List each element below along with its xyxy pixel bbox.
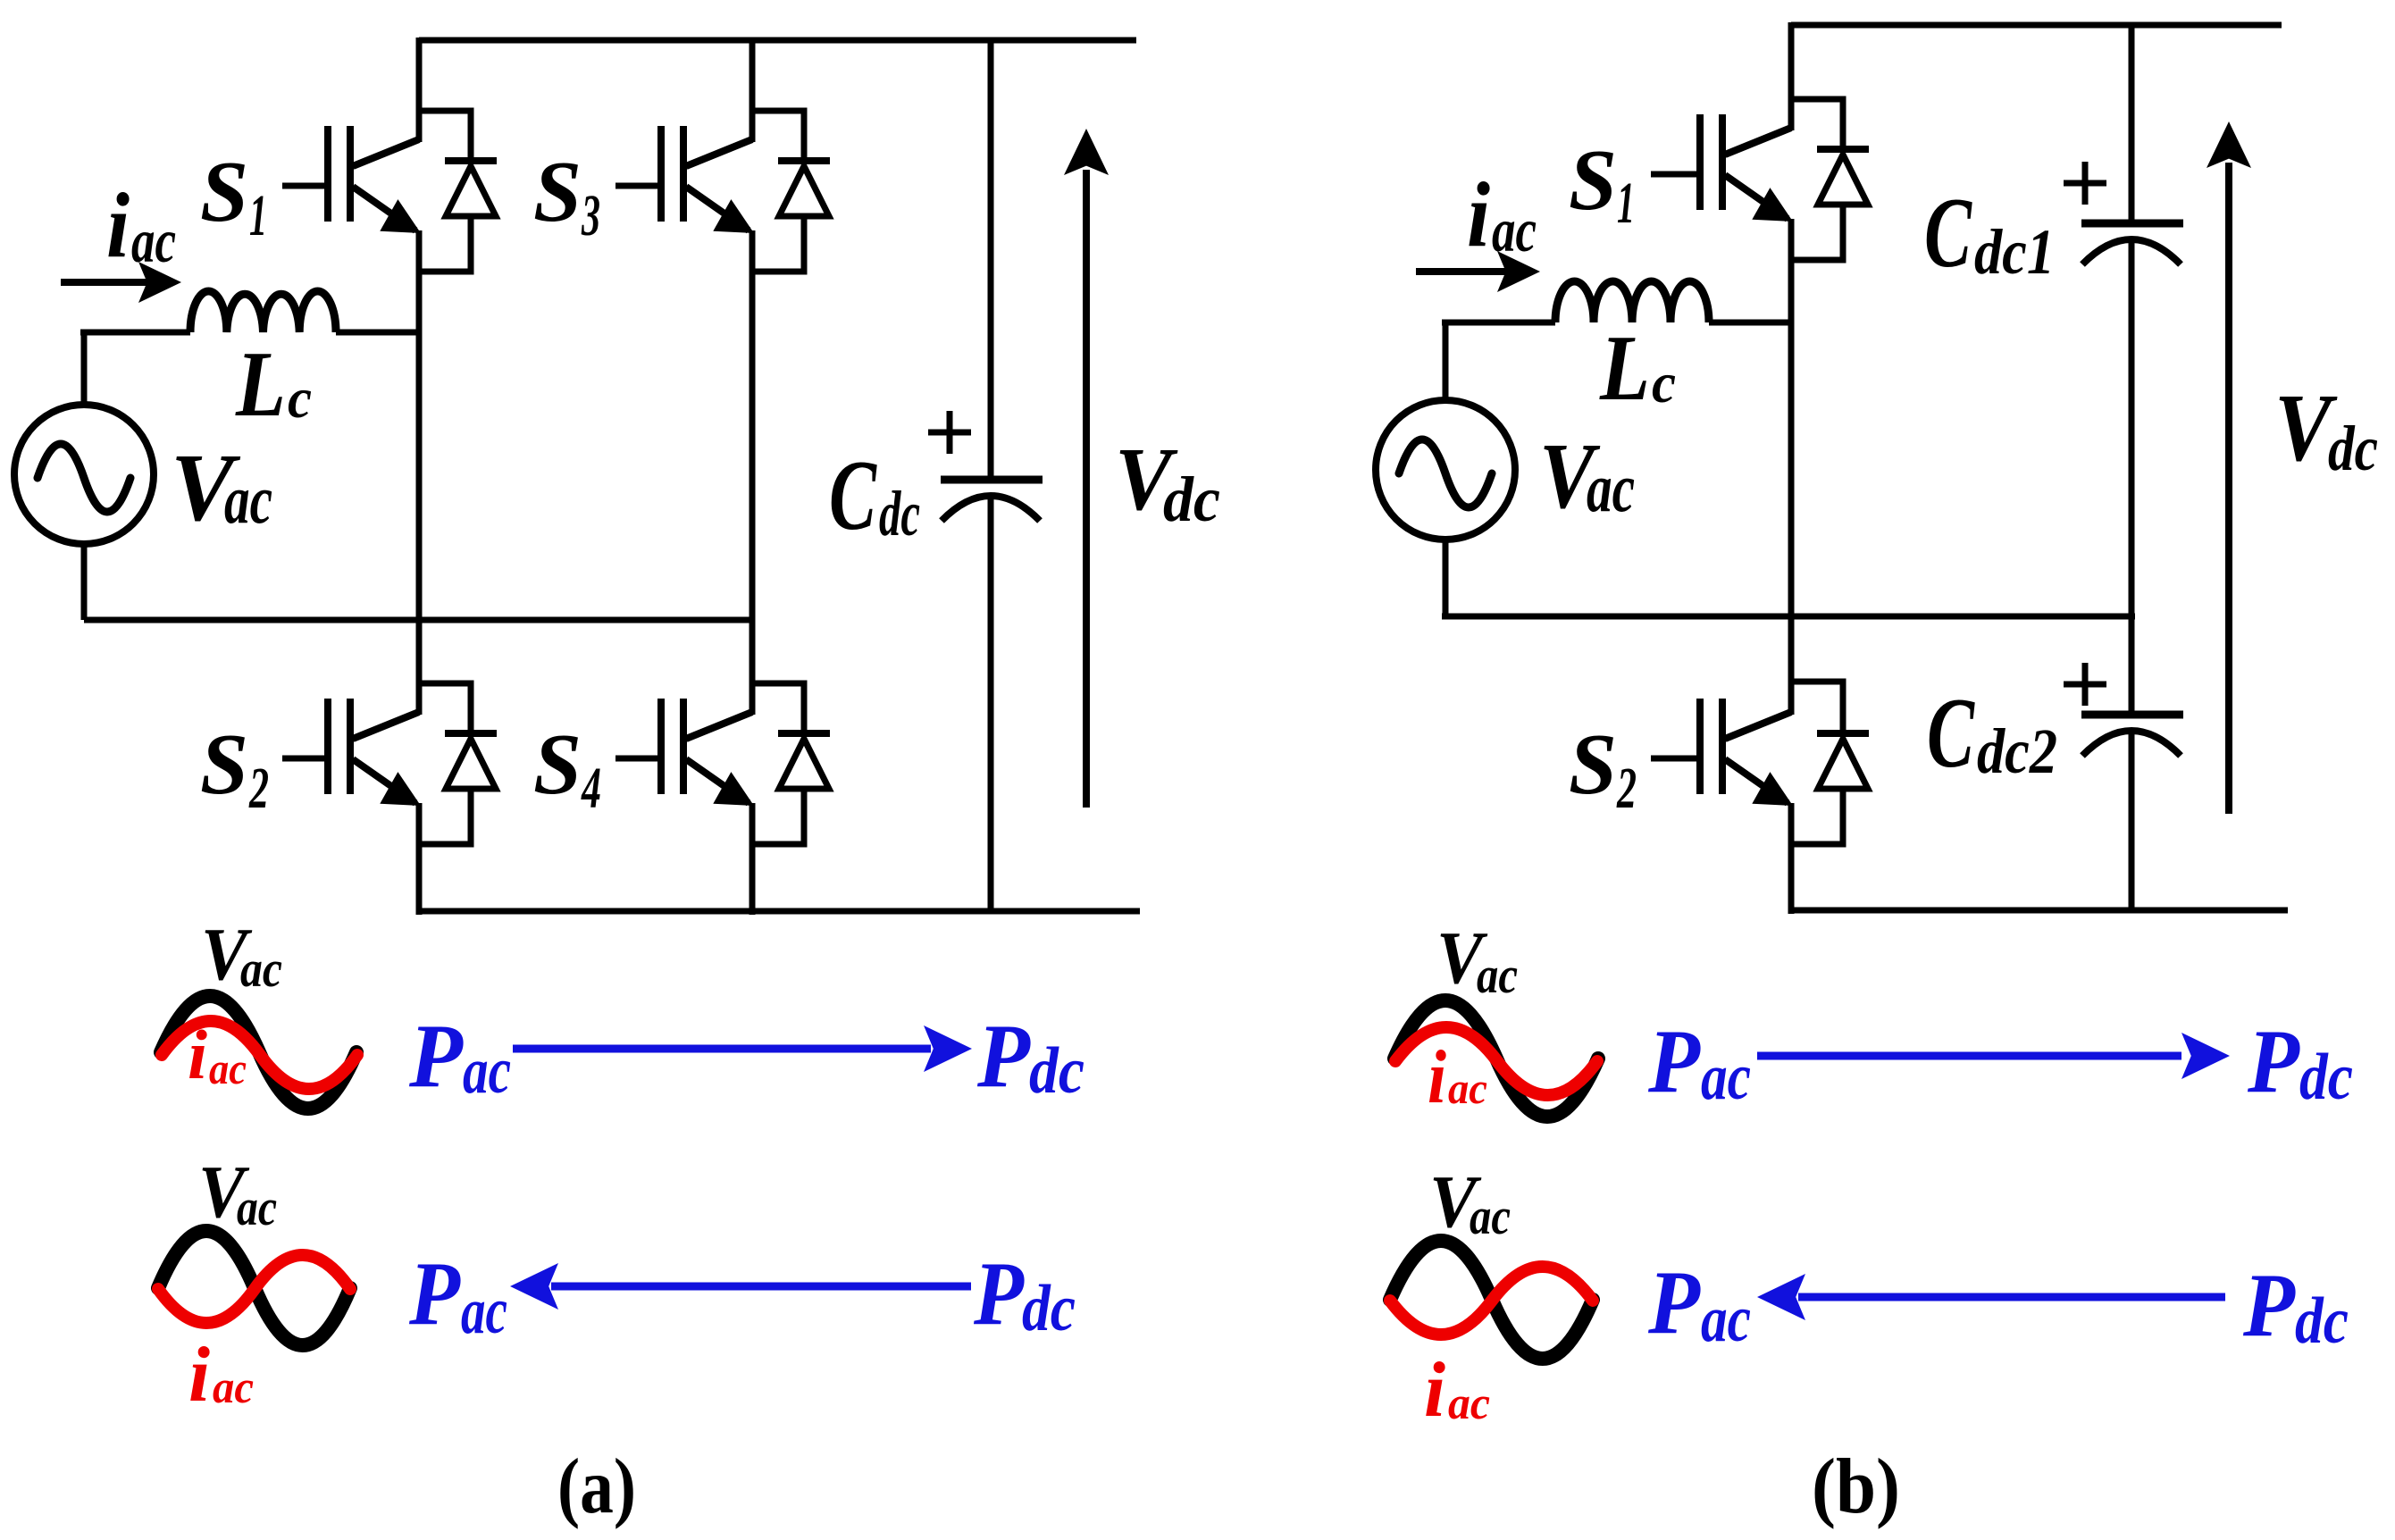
svg-text:i: i [106, 174, 130, 277]
svg-text:L: L [1599, 315, 1650, 420]
transistor S2 (IGBT) [282, 699, 421, 806]
transistor S1 (b) (IGBT) [1651, 114, 1793, 222]
diode D2 (b) (anti-parallel) [1791, 682, 1869, 844]
svg-text:ac: ac [1701, 1041, 1751, 1114]
current arrow iac (a) [61, 262, 181, 303]
plus sign of Cdc2 [2064, 663, 2106, 706]
svg-text:ac: ac [1470, 1187, 1511, 1245]
svg-text:P: P [973, 1243, 1025, 1344]
svg-text:ac: ac [131, 207, 176, 276]
wire: top DC rail (a) [419, 38, 1136, 44]
capacitor Cdc1 [2081, 223, 2183, 264]
svg-text:L: L [235, 331, 286, 436]
wire: source bottom lead (b) [1443, 537, 1449, 616]
wire: right leg lower segment (a) [749, 803, 756, 915]
svg-text:ac: ac [224, 461, 272, 538]
waveform iac red sine (a) row1 [162, 1021, 357, 1089]
wire: ac wire left of inductor (a) [80, 330, 190, 336]
svg-text:i: i [1424, 1347, 1446, 1434]
waveform Vac black sine (b) row2 [1390, 1241, 1593, 1359]
svg-text:dc: dc [879, 478, 920, 549]
wire: DC bus bottom segment (b) [2129, 734, 2135, 910]
power flow arrow Pdc to Pac (b) row2 [1757, 1274, 2225, 1320]
svg-text:ac: ac [461, 1275, 507, 1348]
arrow Vdc (a) [1064, 129, 1109, 808]
svg-text:S: S [1569, 132, 1617, 229]
svg-text:P: P [976, 1006, 1031, 1107]
power flow arrow Pdc to Pac (a) row2 [510, 1263, 971, 1310]
power flow arrow Pac to Pdc (a) row1 [513, 1025, 972, 1072]
svg-text:C: C [1927, 678, 1975, 789]
svg-text:P: P [408, 1006, 464, 1107]
power flow arrow Pac to Pdc (b) row1 [1757, 1033, 2230, 1079]
svg-text:C: C [1924, 178, 1972, 289]
svg-text:i: i [188, 1332, 211, 1419]
svg-text:dc: dc [1029, 1034, 1084, 1108]
diode D2 (anti-parallel) [419, 683, 497, 844]
waveform iac red sine (b) row1 [1395, 1027, 1597, 1095]
arrow Vdc (b) [2207, 121, 2251, 814]
waveform iac red sine (b) row2 [1390, 1267, 1593, 1335]
svg-text:S: S [200, 716, 248, 813]
svg-text:dc: dc [2299, 1041, 2353, 1114]
wire: DC bus top segment (b) [2129, 25, 2135, 220]
waveform Vac black sine (b) row1 [1394, 1000, 1598, 1117]
wire: leg upper segment (b) [1788, 22, 1795, 130]
wire: DC bus middle segment (b) [2129, 243, 2135, 711]
svg-text:dc: dc [1163, 464, 1220, 535]
svg-text:c: c [288, 366, 312, 430]
waveform iac red sine (a) row2 [158, 1255, 350, 1323]
svg-text:P: P [2247, 1011, 2300, 1112]
diode D1 (b) (anti-parallel) [1791, 99, 1869, 260]
wire: left leg lower segment (a) [416, 803, 423, 915]
waveform Vac black sine (a) row1 [161, 996, 356, 1109]
svg-text:ac: ac [240, 940, 282, 998]
svg-text:dc: dc [2328, 413, 2378, 484]
svg-text:ac: ac [1448, 1378, 1490, 1429]
svg-text:i: i [1467, 163, 1490, 266]
svg-text:(a): (a) [557, 1444, 636, 1530]
wire: bottom DC rail (a) [419, 908, 1140, 915]
svg-text:ac: ac [213, 1362, 254, 1413]
wire: right leg middle segment (a) [749, 230, 756, 715]
wire: ac wire left of inductor (b) [1442, 320, 1555, 326]
svg-text:ac: ac [237, 1178, 277, 1236]
svg-text:2: 2 [248, 756, 269, 821]
transistor S4 (IGBT) [615, 699, 754, 806]
wire: source bottom lead (a) [81, 541, 88, 620]
wire: ac wire right of inductor (a) [336, 330, 422, 336]
svg-text:i: i [1428, 1035, 1446, 1119]
capacitor Cdc2 [2081, 715, 2183, 756]
svg-text:ac: ac [1587, 449, 1635, 526]
svg-text:1: 1 [1617, 171, 1635, 236]
plus sign of Cdc1 [2064, 162, 2106, 205]
svg-text:2: 2 [1616, 756, 1637, 821]
plus sign of Cdc [928, 411, 971, 454]
capacitor Cdc [941, 480, 1043, 521]
inductor Lc (a) [190, 291, 336, 332]
transistor S1 (IGBT) [282, 126, 421, 233]
current arrow iac (b) [1416, 251, 1540, 292]
svg-text:ac: ac [1492, 197, 1537, 265]
wire: top DC rail (b) [1791, 22, 2282, 29]
wire: AC return rail (b) [1442, 614, 2135, 620]
wire: DC bus lower segment (a) [988, 497, 994, 911]
svg-text:3: 3 [581, 183, 600, 248]
wire: ac wire right of inductor (b) [1709, 320, 1794, 326]
diode D1 (anti-parallel) [419, 111, 497, 272]
wire: leg middle segment (b) [1788, 219, 1795, 715]
svg-text:P: P [1647, 1011, 1701, 1112]
svg-text:ac: ac [1701, 1283, 1751, 1356]
svg-text:4: 4 [581, 756, 601, 821]
wire: AC return rail (a) [84, 617, 755, 624]
wire: right leg upper segment (a) [749, 38, 756, 142]
diode D3 (anti-parallel) [752, 111, 830, 272]
svg-text:P: P [2242, 1255, 2296, 1356]
inductor Lc (b) [1555, 281, 1709, 322]
ac source Vac (b) [1376, 400, 1515, 540]
wire: bottom DC rail (b) [1791, 908, 2288, 914]
wire: left leg upper segment (a) [416, 38, 423, 142]
svg-text:(b): (b) [1812, 1444, 1900, 1530]
svg-text:S: S [200, 144, 248, 240]
transistor S2 (b) (IGBT) [1651, 699, 1793, 806]
svg-text:dc: dc [1022, 1272, 1076, 1345]
svg-text:ac: ac [1477, 946, 1518, 1004]
svg-text:ac: ac [1448, 1063, 1487, 1113]
svg-text:c: c [1652, 351, 1676, 414]
svg-text:dc2: dc2 [1977, 716, 2057, 787]
svg-text:S: S [1569, 716, 1617, 813]
svg-text:dc1: dc1 [1974, 216, 2055, 288]
svg-text:S: S [533, 144, 582, 240]
svg-text:P: P [1647, 1252, 1701, 1353]
svg-text:P: P [408, 1243, 461, 1344]
svg-text:dc: dc [2295, 1285, 2349, 1358]
svg-text:1: 1 [249, 183, 267, 248]
wire: left leg middle segment (a) [416, 230, 423, 715]
wire: leg lower segment (b) [1788, 803, 1795, 914]
diode D4 (anti-parallel) [752, 683, 830, 844]
ac source Vac (a) [14, 405, 154, 544]
svg-text:ac: ac [463, 1034, 511, 1108]
svg-text:C: C [829, 440, 877, 551]
wire: source top lead (a) [81, 332, 88, 405]
waveform Vac black sine (a) row2 [158, 1231, 350, 1345]
transistor S3 (IGBT) [615, 126, 754, 233]
svg-text:i: i [188, 1016, 207, 1093]
wire: DC bus upper segment (a) [988, 40, 994, 476]
wire: source top lead (b) [1443, 322, 1449, 400]
svg-text:ac: ac [209, 1043, 247, 1093]
svg-text:S: S [533, 716, 582, 813]
